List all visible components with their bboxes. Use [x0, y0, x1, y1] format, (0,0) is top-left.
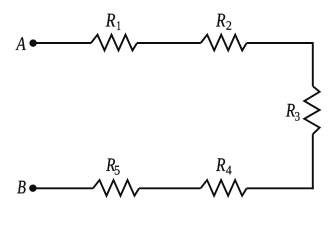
label R5 subscript 5 — [115, 166, 120, 175]
node A label — [16, 37, 26, 50]
label R5 letter — [106, 159, 115, 171]
resistor R2 zigzag — [201, 35, 247, 51]
wire R1 to R2 — [137, 42, 201, 44]
node B label — [17, 181, 25, 194]
label R4 subscript 4 — [226, 166, 231, 175]
wire bottom-right corner to R4 — [247, 187, 314, 189]
resistor R4 zigzag — [201, 180, 247, 196]
label R1 subscript 1 — [117, 21, 120, 30]
label R4 letter — [216, 158, 225, 171]
node B terminal dot — [29, 185, 36, 192]
label R3 letter — [286, 104, 295, 117]
resistor R1 zigzag — [91, 35, 137, 51]
resistor R5 zigzag — [93, 180, 139, 196]
label R3 subscript 3 — [295, 112, 300, 121]
label R2 subscript 2 — [226, 21, 231, 29]
resistor R3 zigzag — [304, 86, 319, 134]
wire R3 to bottom-right corner — [312, 134, 314, 189]
node A terminal dot — [29, 40, 36, 47]
wire top-right corner down to R3 — [312, 42, 314, 86]
wire R5 to node B — [33, 187, 93, 189]
label R2 letter — [216, 14, 225, 27]
wire R4 to R5 — [139, 187, 201, 189]
wire node A to R1 — [33, 42, 91, 44]
label R1 letter — [106, 14, 116, 27]
wire R2 to top-right corner — [247, 42, 313, 44]
